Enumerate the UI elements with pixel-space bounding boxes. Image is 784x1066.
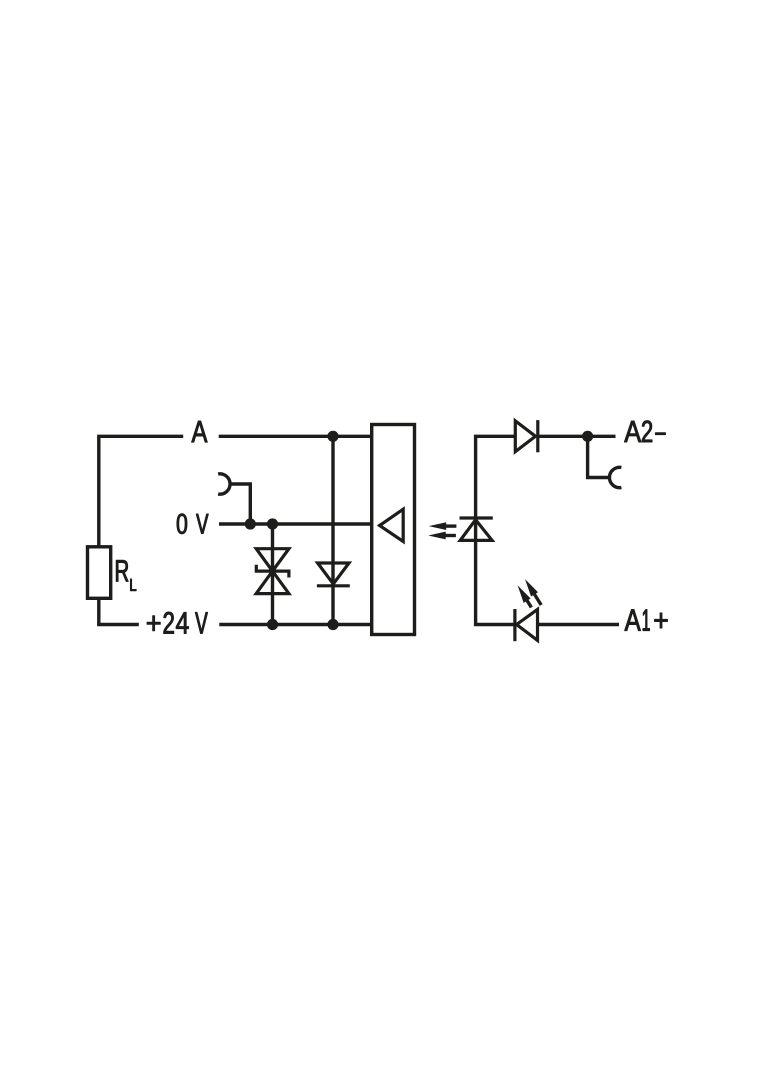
wire D2 cathode to A2- terminal xyxy=(538,435,616,438)
node A / D1 junction xyxy=(327,431,338,442)
wire 0V from label to amplifier box xyxy=(219,522,372,525)
label A1+ xyxy=(625,610,641,631)
LED emission arrows xyxy=(514,577,545,610)
wire diode D1 branch A to +24V xyxy=(331,436,334,624)
wire A from label to amplifier box xyxy=(219,435,372,438)
wire A2- clamp drop xyxy=(588,436,610,477)
wire clamp branch to 0V line xyxy=(231,484,251,524)
resistor RL xyxy=(88,547,111,599)
light arrows into receiver xyxy=(428,522,456,539)
wire optocoupler vertical right branch xyxy=(476,436,516,624)
amplifier box U1 xyxy=(372,425,415,635)
TVS suppressor diode xyxy=(256,549,289,594)
diode D1 xyxy=(317,563,350,586)
wire TVS branch 0V to +24V xyxy=(271,524,274,625)
label A2- xyxy=(624,421,641,442)
node A2- junction xyxy=(582,431,593,442)
label RL xyxy=(116,560,128,581)
junction dots xyxy=(245,431,594,630)
amplifier triangle xyxy=(380,509,404,541)
wire A left segment with corner down to load resistor xyxy=(99,436,183,547)
node +24V D1 junction xyxy=(327,619,338,630)
node 0V clamp junction xyxy=(245,518,256,529)
optocoupler photodiode xyxy=(460,518,493,540)
clamp contact at 0V branch (arc open left) xyxy=(218,474,230,494)
label A xyxy=(192,421,208,442)
wire +24V from label to amplifier box xyxy=(219,623,371,626)
wire LED anode to A1+ terminal xyxy=(538,623,620,626)
clamp contact at A2- branch (arc open right) xyxy=(609,467,621,487)
wire from resistor bottom to +24V corner xyxy=(99,598,139,624)
diode D2 at A2- xyxy=(515,420,538,452)
label 0V xyxy=(177,514,187,534)
node 0V TVS junction xyxy=(267,518,278,529)
node +24V TVS junction xyxy=(267,619,278,630)
status LED at A1+ xyxy=(515,609,538,641)
label +24V xyxy=(147,616,160,631)
